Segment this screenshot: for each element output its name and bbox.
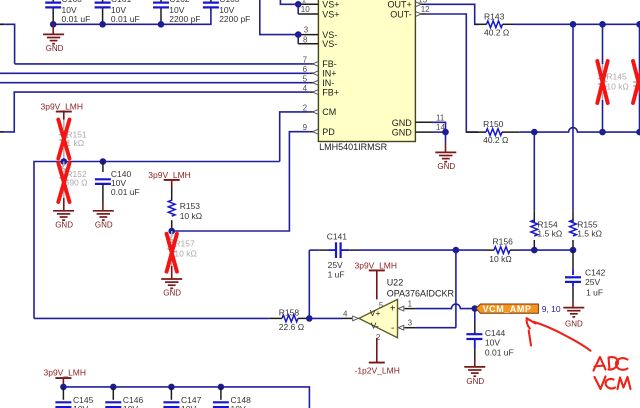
pin 14 GND <box>415 123 448 136</box>
capacitor C160 <box>45 0 90 24</box>
ground GND under C140 <box>93 211 114 230</box>
capacitor C148 <box>213 387 251 408</box>
svg-text:CM: CM <box>322 107 336 117</box>
pin 2 CM <box>303 103 319 114</box>
svg-text:4: 4 <box>303 84 308 93</box>
capacitor C146 <box>105 387 143 408</box>
resistor R150 <box>466 119 519 145</box>
resistor R152 (DNP) <box>58 162 87 203</box>
svg-text:-: - <box>391 323 394 334</box>
svg-text:10 kΩ: 10 kΩ <box>174 249 196 259</box>
wire feedback vertical <box>455 250 457 328</box>
svg-text:VS+: VS+ <box>322 0 339 10</box>
wire CM net vertical <box>280 112 310 162</box>
svg-text:C162: C162 <box>169 0 190 4</box>
wire off-sheet stub to FB- net <box>0 24 15 64</box>
svg-text:U22: U22 <box>387 278 404 288</box>
capacitor C142 <box>565 250 606 308</box>
pin 10 VS+ <box>298 4 318 14</box>
resistor R151 (DNP) <box>58 120 87 162</box>
svg-text:7: 7 <box>303 56 308 65</box>
svg-text:C142: C142 <box>585 268 606 278</box>
junction node CM <box>61 158 107 165</box>
svg-text:-1p2V_LMH: -1p2V_LMH <box>355 366 400 376</box>
svg-text:10V: 10V <box>485 337 500 347</box>
svg-text:22.6 Ω: 22.6 Ω <box>279 322 304 332</box>
resistor at right edge (DNP, cut off) <box>633 24 640 132</box>
wire FB+ input <box>0 92 310 132</box>
ground GND under cap rail <box>43 24 64 53</box>
wire OUT+ to R143 <box>426 4 479 24</box>
svg-text:5: 5 <box>379 301 384 310</box>
svg-text:R150: R150 <box>483 119 504 129</box>
svg-text:6: 6 <box>303 65 308 74</box>
pin 4 FB+ <box>303 84 319 95</box>
svg-text:3p9V_LMH: 3p9V_LMH <box>44 368 87 378</box>
svg-text:590 Ω: 590 Ω <box>65 178 88 188</box>
capacitor C145 <box>55 387 93 408</box>
svg-text:1 uF: 1 uF <box>586 288 603 298</box>
svg-text:R157: R157 <box>174 238 195 248</box>
op-amp U? LMH5401IRMSR body <box>318 0 415 152</box>
svg-text:10 kΩ: 10 kΩ <box>180 211 202 221</box>
svg-text:C161: C161 <box>111 0 132 4</box>
net label VCM_AMP <box>476 304 561 314</box>
capacitor C161 <box>95 0 140 24</box>
wire IN+ input <box>0 72 310 74</box>
ground GND under R152 <box>53 198 74 229</box>
pin 3 op-amp -input <box>398 319 456 330</box>
svg-text:8: 8 <box>303 36 308 45</box>
svg-text:1.5 kΩ: 1.5 kΩ <box>577 229 602 239</box>
resistor R145 (DNP) <box>597 24 629 132</box>
svg-text:V-: V- <box>371 320 379 330</box>
wire PD net <box>168 132 309 235</box>
pin 9 PD <box>303 123 319 134</box>
svg-text:14: 14 <box>436 123 445 132</box>
power 3p9V_LMH at R151 <box>41 102 84 120</box>
svg-text:9, 10: 9, 10 <box>542 304 561 314</box>
annotation text ADC VCM <box>594 357 631 389</box>
capacitor C163 <box>203 0 251 24</box>
svg-text:1: 1 <box>408 299 413 308</box>
svg-text:VCM_AMP: VCM_AMP <box>483 304 532 314</box>
resistor R156 <box>456 236 534 264</box>
svg-text:R158: R158 <box>279 307 300 317</box>
node feedback junction <box>453 247 460 254</box>
pin names right column <box>388 0 413 138</box>
node VCM_AMP junction <box>472 305 479 312</box>
power 3p9V_LMH bottom rail <box>44 368 87 387</box>
pin 1 op-amp +input <box>398 299 475 311</box>
svg-text:C141: C141 <box>327 232 348 242</box>
svg-text:10 kΩ: 10 kΩ <box>489 254 511 264</box>
svg-text:3: 3 <box>408 319 413 328</box>
pin 7 FB- <box>303 56 319 67</box>
junction dots on cap rail <box>50 21 164 28</box>
pin 11 GND <box>415 113 445 132</box>
ground GND at IC pins 11/14 <box>435 132 456 171</box>
svg-text:R145: R145 <box>606 72 627 82</box>
svg-text:GND: GND <box>466 377 484 386</box>
svg-text:2200 pF: 2200 pF <box>219 14 250 24</box>
svg-text:+: + <box>390 304 396 315</box>
svg-text:1 kΩ: 1 kΩ <box>66 138 84 148</box>
svg-text:R143: R143 <box>484 12 505 22</box>
svg-text:OPA376AIDCKR: OPA376AIDCKR <box>387 288 455 298</box>
wire bottom rail <box>60 384 309 408</box>
svg-text:12: 12 <box>421 5 430 14</box>
svg-text:OUT-: OUT- <box>390 9 412 19</box>
capacitor C141 <box>309 232 456 280</box>
svg-text:0.01 uF: 0.01 uF <box>111 14 140 24</box>
svg-text:5: 5 <box>303 75 308 84</box>
pin 12 OUT- <box>415 5 430 16</box>
resistor R154 <box>531 132 562 250</box>
svg-text:2200 pF: 2200 pF <box>169 14 200 24</box>
wire cap rail <box>53 10 211 25</box>
wire FB- input <box>15 63 310 65</box>
svg-text:25V: 25V <box>328 260 343 270</box>
svg-text:LMH5401IRMSR: LMH5401IRMSR <box>319 142 388 152</box>
capacitor C144 <box>466 309 513 367</box>
svg-text:40.2 Ω: 40.2 Ω <box>483 135 508 145</box>
svg-text:11: 11 <box>436 113 445 122</box>
pin names left column <box>322 0 339 137</box>
svg-text:3: 3 <box>304 25 309 34</box>
svg-text:GND: GND <box>163 289 181 298</box>
svg-text:10: 10 <box>301 5 310 14</box>
ground GND under R157 <box>161 266 182 298</box>
svg-text:OUT+: OUT+ <box>388 0 412 10</box>
svg-text:10 kΩ: 10 kΩ <box>606 81 628 91</box>
resistor R155 <box>570 24 602 250</box>
resistor R157 (DNP) <box>167 231 197 272</box>
svg-text:VS-: VS- <box>322 39 337 49</box>
svg-text:3p9V_LMH: 3p9V_LMH <box>148 170 191 180</box>
wire IN- input <box>0 82 310 84</box>
svg-text:C163: C163 <box>219 0 240 4</box>
wire R158 output node rail <box>34 317 269 319</box>
svg-text:40.2 Ω: 40.2 Ω <box>484 28 509 38</box>
svg-text:1.5 kΩ: 1.5 kΩ <box>537 229 562 239</box>
svg-text:GND: GND <box>437 162 455 171</box>
svg-text:PD: PD <box>322 127 335 137</box>
svg-text:GND: GND <box>95 220 113 229</box>
svg-text:GND: GND <box>46 44 64 53</box>
svg-text:R156: R156 <box>493 236 514 246</box>
svg-text:1: 1 <box>302 0 307 5</box>
wire OUT+ rail <box>514 21 640 28</box>
svg-text:10V: 10V <box>73 404 88 408</box>
svg-text:3p9V_LMH: 3p9V_LMH <box>355 260 398 270</box>
svg-text:10V: 10V <box>231 404 246 408</box>
resistor R153 <box>168 187 202 231</box>
capacitor C162 <box>153 0 201 24</box>
svg-text:4: 4 <box>343 310 348 319</box>
resistor R143 <box>475 12 514 38</box>
svg-text:R153: R153 <box>180 201 201 211</box>
svg-text:0.01 uF: 0.01 uF <box>485 347 514 357</box>
svg-text:FB+: FB+ <box>322 87 339 97</box>
capacitor C147 <box>163 387 201 408</box>
power 3p9V_LMH at op-amp <box>355 260 398 299</box>
svg-text:1 uF: 1 uF <box>328 270 345 280</box>
svg-text:0.01 uF: 0.01 uF <box>111 187 140 197</box>
svg-text:25V: 25V <box>585 277 600 287</box>
capacitor C140 <box>95 162 140 211</box>
svg-text:GND: GND <box>55 220 73 229</box>
svg-text:9: 9 <box>303 123 308 132</box>
wire OUT- to R150 <box>426 14 479 132</box>
pin 8 VS- <box>298 35 318 45</box>
node output junction <box>306 250 313 322</box>
ground GND under C142 <box>563 308 584 329</box>
svg-text:GND: GND <box>565 319 583 328</box>
pin 4 op-amp output <box>309 310 358 321</box>
power 3p9V_LMH at R153 <box>148 170 191 187</box>
wire OUT- rail with hop over R155 column <box>520 128 640 136</box>
ground GND under C144 <box>464 367 485 386</box>
svg-text:3p9V_LMH: 3p9V_LMH <box>41 102 84 112</box>
svg-text:VS+: VS+ <box>322 9 339 19</box>
svg-text:2: 2 <box>303 103 308 112</box>
wire CM rail <box>34 162 280 319</box>
pin 3 VS- <box>260 0 319 38</box>
pin 6 IN+ <box>303 65 319 76</box>
pin 5 IN- <box>303 75 319 86</box>
annotation arrow to VCM_AMP <box>527 318 591 351</box>
svg-text:0.01 uF: 0.01 uF <box>62 14 91 24</box>
wire VCM divider node <box>531 247 576 254</box>
svg-text:GND: GND <box>392 128 413 138</box>
svg-text:10V: 10V <box>123 404 138 408</box>
power -1p2V_LMH at op-amp <box>355 338 400 376</box>
svg-text:10V: 10V <box>181 404 196 408</box>
pin 1 VS+ <box>280 0 318 8</box>
svg-text:C160: C160 <box>62 0 83 4</box>
resistor R158 <box>269 307 310 332</box>
op-amp U22 triangle <box>359 278 455 343</box>
pin 13 OUT+ <box>415 0 427 7</box>
